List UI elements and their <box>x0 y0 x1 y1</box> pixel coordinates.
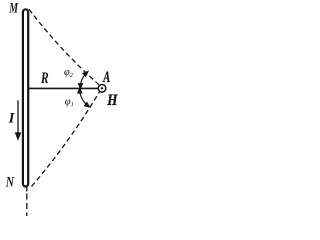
wire R horizontal line <box>29 87 98 89</box>
angle arc phi2 <box>80 72 87 88</box>
svg-text:I: I <box>8 110 16 126</box>
wire NA dashed sight line <box>32 91 100 186</box>
current I arrow <box>17 100 19 137</box>
wire axis continuation below N (dashed) <box>26 194 28 217</box>
svg-text:H: H <box>106 92 118 109</box>
svg-text:A: A <box>103 69 111 86</box>
wire MN (double-line conductor) <box>23 9 28 186</box>
svg-text:M: M <box>9 0 19 16</box>
svg-text:N: N <box>5 174 14 190</box>
wire MA dashed sight line <box>29 9 99 85</box>
node A field point (circle with dot, field out of page) <box>98 85 106 93</box>
svg-text:R: R <box>40 70 49 87</box>
svg-text:φ1: φ1 <box>65 97 74 109</box>
svg-text:φ2: φ2 <box>64 67 74 79</box>
wire axis continuation below N (solid tail) <box>26 187 28 192</box>
angle arc phi1 <box>80 88 89 106</box>
